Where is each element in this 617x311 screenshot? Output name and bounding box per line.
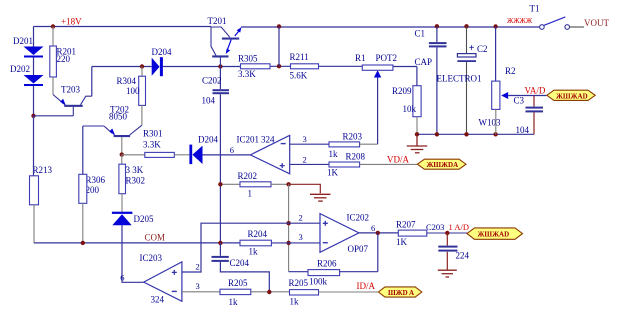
- svg-text:C1: C1: [415, 29, 426, 39]
- resistor R304: [116, 67, 145, 106]
- wire T203 base net: [34, 115, 74, 117]
- potentiometer R1 POT2: [355, 53, 397, 78]
- resistor R209: [392, 86, 421, 135]
- junction R304 top: [140, 64, 144, 68]
- svg-text:+: +: [469, 43, 475, 54]
- wire riser between top bus and R305/R211 junction: [278, 27, 280, 67]
- svg-text:IC201: IC201: [237, 134, 260, 144]
- op-amp IC202: [299, 213, 376, 254]
- capacitor C3: [514, 96, 544, 136]
- diode D205: [112, 212, 154, 226]
- svg-text:3.3K: 3.3K: [143, 140, 161, 150]
- callout 监电压DA (VD/A): [417, 159, 466, 169]
- junction IC202 pin2 net: [286, 221, 290, 225]
- callout 电流DA (ID/A): [378, 287, 421, 297]
- junction IC202 output: [376, 231, 380, 235]
- wire COM extension R204 right to IC202 pin3: [271, 242, 320, 244]
- svg-text:R202: R202: [238, 171, 258, 181]
- svg-text:R301: R301: [143, 129, 163, 139]
- svg-text:D202: D202: [10, 64, 30, 74]
- op-amp IC203: [120, 253, 199, 305]
- svg-text:ELECTRO1: ELECTRO1: [437, 74, 482, 84]
- wire IC201 pin2 to R208: [290, 163, 329, 165]
- wire D204 to IC201 apex: [203, 154, 251, 156]
- svg-text:R211: R211: [290, 52, 309, 62]
- wire top +18V bus left segment: [34, 26, 212, 28]
- svg-text:R207: R207: [396, 220, 416, 230]
- resistor R208: [327, 151, 417, 177]
- svg-text:R208: R208: [346, 151, 366, 161]
- svg-text:R205: R205: [289, 278, 309, 288]
- junction R202 left: [218, 182, 222, 186]
- capacitor C2 electrolytic: [437, 26, 488, 134]
- svg-text:C203: C203: [426, 222, 444, 232]
- capacitor C1: [415, 26, 447, 134]
- wire R202 right to ground: [289, 184, 321, 193]
- wire IC203 pin3 to R205: [182, 291, 220, 293]
- svg-text:1: 1: [248, 188, 253, 198]
- svg-text:R302: R302: [126, 175, 146, 185]
- svg-text:324: 324: [261, 134, 275, 144]
- junction R306 on COM: [81, 241, 85, 245]
- wire between D201 and D202: [33, 58, 35, 76]
- junction R2 top: [493, 24, 497, 28]
- capacitor C202: [202, 67, 230, 106]
- wire D201 column: [33, 27, 35, 48]
- svg-text:COM: COM: [145, 232, 166, 242]
- junction D202/T203/R213: [31, 114, 35, 118]
- svg-text:R205: R205: [228, 278, 248, 288]
- diode D201: [13, 36, 44, 58]
- svg-text:ID/A: ID/A: [357, 281, 376, 291]
- wire ground bus under caps: [417, 133, 534, 135]
- wire R2 top feed: [495, 27, 497, 82]
- svg-text:R213: R213: [33, 165, 53, 175]
- ground symbol under bus: [407, 134, 428, 153]
- svg-text:1 A/D: 1 A/D: [449, 222, 470, 232]
- wire feedback riser at output: [377, 233, 379, 272]
- junction C1 bottom: [435, 132, 439, 136]
- svg-text:T201: T201: [208, 16, 227, 26]
- resistor R205 (left): [220, 278, 290, 307]
- junction R205/R205/C204: [267, 290, 271, 294]
- wire CAP corner down to R209: [416, 67, 418, 86]
- svg-text:R2: R2: [505, 66, 516, 76]
- resistor R204: [240, 229, 271, 257]
- junction IC202 pin3 net: [286, 241, 290, 245]
- callout 监电流AD (1 A/D): [467, 228, 523, 239]
- svg-text:1K: 1K: [396, 237, 408, 247]
- diode D202: [10, 64, 44, 86]
- svg-text:T1: T1: [530, 4, 540, 14]
- resistor R207: [396, 220, 467, 247]
- svg-text:D205: D205: [134, 214, 154, 224]
- svg-text:3: 3: [299, 232, 303, 242]
- svg-text:POT2: POT2: [376, 53, 398, 63]
- wire wiper VA/D: [508, 95, 546, 97]
- svg-text:R206: R206: [317, 258, 337, 268]
- op-amp IC201: [230, 134, 307, 174]
- wire COM bus: [34, 242, 240, 244]
- svg-text:3: 3: [303, 134, 307, 144]
- svg-text:D204: D204: [198, 135, 218, 145]
- svg-text:324: 324: [151, 294, 165, 304]
- resistor R301: [122, 129, 190, 158]
- svg-text:224: 224: [456, 251, 470, 261]
- svg-text:VA/D: VA/D: [525, 86, 546, 96]
- svg-text:D201: D201: [13, 36, 33, 46]
- ground symbol under C203: [438, 270, 457, 277]
- svg-text:104: 104: [202, 95, 216, 105]
- svg-text:3 3K: 3 3K: [126, 165, 144, 175]
- svg-text:R1: R1: [355, 53, 366, 63]
- svg-text:100k: 100k: [309, 277, 328, 287]
- diode D204 (on mid bus): [152, 47, 172, 76]
- wire T203 collector riser: [91, 67, 93, 97]
- svg-text:R204: R204: [248, 229, 268, 239]
- svg-text:220: 220: [57, 54, 71, 64]
- svg-text:1K: 1K: [327, 167, 339, 177]
- svg-text:R209: R209: [392, 86, 412, 96]
- svg-text:VOUT: VOUT: [584, 18, 609, 28]
- svg-text:104: 104: [516, 125, 530, 135]
- ground symbol near IC202: [310, 194, 331, 201]
- junction T201 emitter / C202: [218, 64, 222, 68]
- diode D204 (IC201 output): [189, 135, 218, 165]
- wire T202 emitter to R306 riser: [82, 126, 84, 174]
- wire D205 anode down across COM to IC203 output: [122, 225, 144, 282]
- wire IC203 pin2 riser and link to IC202 pin2: [182, 223, 320, 272]
- transistor T203: [53, 85, 92, 116]
- svg-text:IC203: IC203: [140, 253, 163, 263]
- svg-text:100: 100: [126, 86, 140, 96]
- svg-text:C2: C2: [477, 44, 488, 54]
- svg-text:ЖШЖAD: ЖШЖAD: [556, 92, 588, 100]
- resistor R206 feedback: [289, 258, 378, 286]
- svg-text:1k: 1k: [329, 149, 339, 159]
- svg-text:R306: R306: [86, 175, 106, 185]
- wire top +18V bus right segment: [241, 26, 541, 28]
- junction R207/C203: [445, 231, 449, 235]
- junction R202 right: [286, 182, 290, 186]
- svg-text:R305: R305: [238, 54, 258, 64]
- junction R305/R211: [277, 64, 281, 68]
- svg-text:ЖШЖAD: ЖШЖAD: [478, 231, 510, 239]
- resistor R213: [30, 116, 53, 243]
- junction R209 bottom: [415, 132, 419, 136]
- switch T1: [507, 4, 584, 30]
- svg-text:OP07: OP07: [348, 244, 369, 254]
- svg-text:8050: 8050: [109, 111, 128, 121]
- svg-text:2: 2: [303, 154, 307, 164]
- svg-text:ШЖD A: ШЖD A: [388, 289, 414, 297]
- junction R201 top: [51, 24, 55, 28]
- svg-text:2: 2: [299, 213, 303, 223]
- svg-text:1k: 1k: [249, 247, 259, 257]
- wire IC202 output: [359, 232, 398, 234]
- callout 监电压AD (VA/D): [547, 90, 595, 100]
- wire vertical R202-right down to IC202 inputs: [288, 184, 290, 271]
- svg-text:T203: T203: [61, 85, 80, 95]
- resistor R305: [238, 54, 270, 80]
- resistor R201: [50, 27, 76, 95]
- capacitor C204: [212, 243, 270, 292]
- svg-text:10k: 10k: [403, 104, 417, 114]
- resistor R306: [79, 174, 106, 243]
- svg-text:200: 200: [86, 185, 100, 195]
- svg-text:C3: C3: [514, 96, 525, 106]
- wire R304 bottom to T202 collector: [141, 105, 143, 125]
- junction T202 base / R301 / R302: [120, 152, 124, 156]
- svg-text:6: 6: [230, 145, 234, 155]
- svg-text:6: 6: [371, 223, 375, 233]
- wire IC201 pin3 to R203: [290, 143, 329, 145]
- svg-text:R203: R203: [343, 131, 363, 141]
- capacitor C203: [438, 233, 469, 270]
- junction C2 bottom: [464, 132, 468, 136]
- svg-text:1k: 1k: [229, 297, 239, 307]
- wire mid bus y66: [92, 65, 417, 67]
- junction W103 bottom: [493, 132, 497, 136]
- svg-text:+18V: +18V: [61, 17, 82, 27]
- junction C1 top: [435, 24, 439, 28]
- potentiometer R2 W103: [479, 66, 516, 134]
- resistor R205 (right): [289, 278, 379, 306]
- svg-text:C202: C202: [202, 75, 222, 85]
- wire D202 to junction: [33, 86, 35, 116]
- svg-text:ЖЖЖЖ: ЖЖЖЖ: [507, 17, 533, 25]
- resistor R203: [329, 131, 378, 159]
- transistor T201: [208, 16, 242, 67]
- svg-text:CAP: CAP: [415, 57, 433, 67]
- svg-text:2: 2: [196, 262, 200, 272]
- svg-text:3.3K: 3.3K: [238, 69, 256, 79]
- resistor R302: [119, 155, 145, 212]
- resistor R211: [290, 52, 319, 81]
- svg-text:3: 3: [196, 281, 200, 291]
- wire pot wiper down to R203: [377, 78, 379, 145]
- wire long vertical from C202 down to COM junction: [219, 94, 221, 243]
- svg-text:1k: 1k: [290, 297, 300, 307]
- svg-text:ЖШЖDA: ЖШЖDA: [427, 161, 459, 169]
- svg-text:6: 6: [120, 272, 124, 282]
- transistor T202: [83, 105, 142, 155]
- junction COM / R204 / C204: [218, 241, 222, 245]
- junction R305/R211 riser top: [277, 24, 281, 28]
- svg-text:IC202: IC202: [347, 213, 370, 223]
- svg-text:VD/A: VD/A: [387, 154, 409, 164]
- svg-text:W103: W103: [479, 118, 501, 128]
- svg-text:5.6K: 5.6K: [290, 71, 308, 81]
- svg-text:D204: D204: [152, 47, 172, 57]
- resistor R202: [220, 171, 288, 199]
- svg-text:R304: R304: [116, 76, 136, 86]
- svg-text:C204: C204: [230, 258, 250, 268]
- junction C2 top: [464, 24, 468, 28]
